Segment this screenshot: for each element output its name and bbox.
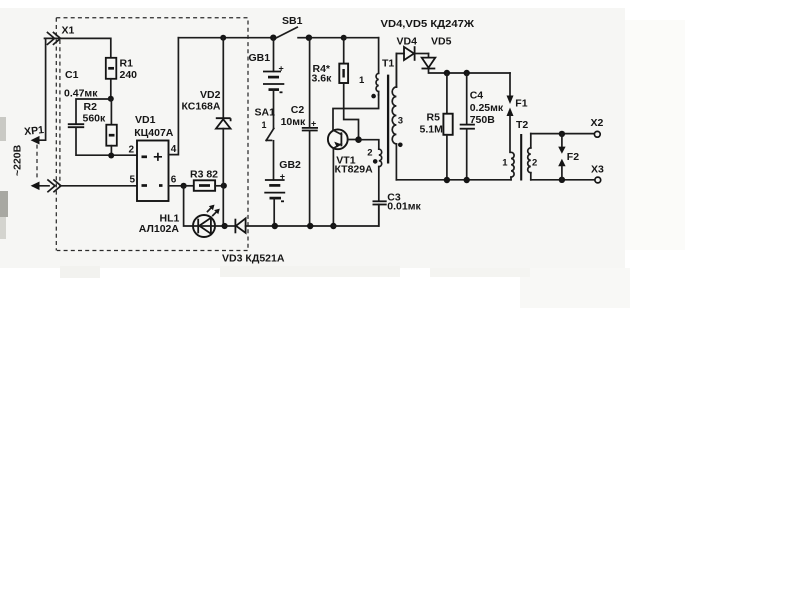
label F1: [515, 98, 527, 110]
svg-text:+: +: [280, 171, 285, 181]
node R1/C1/R2: [108, 96, 114, 102]
label SA1: [255, 107, 276, 131]
node C4 bottom: [464, 177, 470, 183]
output top wire to X2: [531, 133, 595, 135]
resistor R5: [443, 73, 452, 180]
svg-text:VD4,VD5 КД247Ж: VD4,VD5 КД247Ж: [381, 18, 475, 30]
wire top row A from X1 to R1: [45, 38, 111, 57]
svg-text:X3: X3: [591, 164, 604, 176]
LED HL1: [193, 205, 225, 237]
node R5 top: [444, 70, 450, 76]
svg-text:+: +: [311, 118, 316, 128]
T1 winding 2 polarity dot: [373, 159, 378, 164]
svg-text:0.25мк: 0.25мк: [470, 102, 504, 114]
transformer T2 winding 1: [511, 152, 514, 180]
svg-text:КЦ407А: КЦ407А: [134, 127, 174, 139]
svg-text:VD3 КД521А: VD3 КД521А: [222, 254, 285, 265]
svg-text:750В: 750В: [470, 114, 496, 126]
node R4 top: [341, 35, 347, 41]
wire bridge pin 4 up to top rail: [169, 38, 179, 155]
zener diode VD2: [216, 38, 231, 226]
label GB1: [249, 52, 271, 64]
label VD4: [397, 36, 418, 48]
svg-text:R3 82: R3 82: [190, 168, 218, 180]
svg-text:X2: X2: [591, 117, 604, 129]
enclosure dashed box: [56, 18, 248, 251]
svg-text:КС168А: КС168А: [182, 101, 221, 113]
label VT1 KT829A: [335, 154, 374, 175]
svg-text:X1: X1: [62, 25, 75, 37]
top rail from pin4 riser to battery node: [178, 37, 273, 39]
node F2 bottom: [559, 177, 565, 183]
diode VD3: [225, 218, 334, 233]
T1 winding 3 polarity dot: [398, 143, 403, 148]
label winding 2: [367, 147, 372, 158]
top rail SB1 to R4 node: [309, 37, 344, 39]
transformer T1 core: [387, 75, 389, 164]
transformer T1 winding 1: [376, 38, 379, 95]
node F2 top: [559, 131, 565, 137]
svg-text:C2: C2: [291, 104, 305, 116]
terminal X3: [595, 177, 601, 183]
node GB2 bottom rail: [272, 223, 278, 229]
label VD3 KD521A: [222, 254, 285, 265]
label GB2: [279, 159, 301, 171]
svg-text:C4: C4: [470, 89, 484, 101]
label R1 240: [120, 58, 138, 82]
svg-text:2: 2: [129, 145, 135, 156]
label T2 winding 2: [532, 158, 537, 169]
svg-text:5: 5: [130, 174, 136, 185]
socket X1 upper chevrons: [48, 33, 61, 45]
svg-text:T1: T1: [382, 58, 394, 70]
svg-text:R2: R2: [84, 101, 98, 113]
svg-text:240: 240: [120, 69, 138, 81]
bottom rail right end up to C3: [333, 205, 378, 227]
svg-text:3: 3: [398, 116, 403, 127]
terminal X2: [594, 131, 600, 137]
resistor R2: [106, 99, 117, 156]
transistor VT1: [328, 129, 359, 149]
switch SA1: [266, 128, 274, 179]
svg-text:5.1М: 5.1М: [420, 123, 444, 135]
node base/winding2: [355, 136, 362, 143]
svg-text:R1: R1: [120, 58, 134, 70]
label X2: [591, 117, 604, 129]
transformer T2 winding 2: [528, 134, 531, 180]
svg-text:2: 2: [367, 147, 372, 158]
connector X1 dashed link line: [59, 40, 61, 184]
connector XP1 dashed body line: [36, 145, 38, 179]
resistor R1: [106, 58, 117, 79]
capacitor C1: [68, 124, 84, 127]
capacitor C4: [460, 73, 475, 180]
svg-text:2: 2: [532, 158, 537, 169]
diode VD4: [404, 46, 429, 61]
label HL1 AL102A: [139, 213, 180, 235]
label VD4,VD5 KD247Zh: [381, 18, 475, 30]
XP1 lower pin double-headed arrow and X1 lower chevrons: [31, 180, 61, 192]
svg-text:F1: F1: [515, 98, 527, 110]
resistor R4: [339, 38, 358, 140]
label X3: [591, 164, 604, 176]
node R5 bottom: [444, 177, 450, 183]
node R3/VD2 line: [221, 183, 227, 189]
node LED/VD2/VD3: [222, 223, 228, 229]
svg-text:T2: T2: [516, 119, 528, 131]
bridge rectifier VD1 box: [137, 141, 169, 202]
wire node to C1 top: [76, 99, 111, 123]
battery GB1: [263, 38, 284, 129]
svg-text:0.47мк: 0.47мк: [64, 87, 98, 99]
svg-text:1: 1: [502, 158, 508, 169]
label T1: [382, 58, 394, 70]
svg-text:1: 1: [262, 120, 267, 130]
capacitor C3: [373, 201, 387, 226]
spark gap F2: [558, 134, 565, 180]
wire collector to winding 1: [333, 95, 379, 130]
label T2 winding 1: [502, 158, 508, 169]
label ~220V: [12, 144, 24, 176]
svg-text:4: 4: [171, 144, 177, 155]
label R2 560k: [83, 101, 107, 124]
svg-text:~220В: ~220В: [12, 144, 24, 176]
node C2 top: [306, 35, 312, 41]
label winding 3: [398, 116, 403, 127]
bridge pin number labels: [129, 144, 177, 185]
wire bridge pin 6 to R3 node: [169, 185, 184, 187]
wire C1 bottom to pin2 wire: [76, 128, 137, 156]
label C3 0.01mk: [387, 191, 421, 212]
top rail R4 node to T1 w1: [344, 37, 379, 39]
diode VD5: [422, 54, 511, 74]
T1 winding 1 polarity dot: [371, 94, 376, 99]
label VD2 KC168A: [182, 89, 221, 113]
wire LED branch down: [184, 186, 193, 226]
label R5 5.1M: [420, 112, 444, 136]
svg-text:3.6к: 3.6к: [312, 72, 333, 84]
label F2: [567, 151, 579, 163]
label C4 0.25mk 750V: [470, 89, 504, 126]
node C4 top: [464, 70, 470, 76]
svg-text:560к: 560к: [83, 112, 107, 124]
node VD2 top: [220, 35, 226, 41]
svg-text:VD1: VD1: [135, 114, 156, 126]
svg-text:VD5: VD5: [431, 36, 452, 48]
label VD5: [431, 36, 452, 48]
svg-text:GB1: GB1: [249, 52, 271, 64]
switch SB1: [277, 27, 309, 37]
label SB1: [282, 15, 303, 27]
svg-text:VD2: VD2: [200, 89, 221, 101]
battery GB2: [264, 171, 285, 226]
svg-text:GB2: GB2: [279, 159, 301, 171]
label C2 10mk: [281, 104, 306, 128]
capacitor C2: [302, 38, 318, 226]
resistor R3: [184, 180, 224, 191]
spark gap F1: [507, 73, 514, 152]
wire winding3 top to VD4: [396, 54, 404, 88]
svg-text:+: +: [279, 64, 284, 74]
label C1 0.47mk: [64, 69, 98, 99]
label XP1: [24, 124, 45, 138]
label T2: [516, 119, 528, 131]
node pin6/R3/LED: [181, 183, 187, 189]
label X1: [62, 25, 75, 37]
output bottom wire to X3: [531, 179, 595, 181]
wire emitter down to rail: [332, 148, 334, 226]
svg-text:АЛ102А: АЛ102А: [139, 223, 180, 235]
svg-text:10мк: 10мк: [281, 116, 306, 128]
transformer T1 winding 3: [392, 54, 396, 180]
label VD1 KC407A: [134, 114, 174, 139]
transformer T1 winding 2: [359, 140, 382, 201]
node C2 bottom rail: [307, 223, 313, 229]
svg-text:R5: R5: [427, 112, 441, 124]
svg-text:F2: F2: [567, 151, 579, 163]
label R4 3.6k: [312, 63, 333, 84]
svg-text:SB1: SB1: [282, 15, 303, 27]
svg-text:1: 1: [359, 75, 365, 86]
plug XP1 pin arrowhead: [31, 136, 40, 145]
wire from X1 down to XP1 pin: [38, 38, 46, 140]
svg-text:C1: C1: [65, 69, 79, 81]
svg-text:SA1: SA1: [255, 107, 276, 119]
wire row B to bridge pin 5: [60, 185, 137, 187]
node battery top: [270, 35, 276, 41]
svg-text:XP1: XP1: [24, 124, 45, 138]
secondary bottom rail T1 to T2: [396, 179, 511, 181]
svg-text:КТ829А: КТ829А: [335, 163, 374, 175]
svg-text:6: 6: [171, 175, 177, 186]
svg-text:0.01мк: 0.01мк: [387, 200, 421, 212]
label R3 82: [190, 168, 218, 180]
label winding 1: [359, 75, 365, 86]
svg-text:VD4: VD4: [397, 36, 418, 48]
wire R1 bottom to node: [110, 79, 112, 99]
transformer T2 core: [520, 134, 522, 181]
node emitter rail: [330, 223, 336, 229]
node R2/C1/pin2: [108, 153, 114, 159]
